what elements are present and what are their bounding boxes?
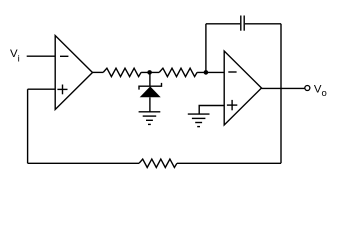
U2 minus sign <box>228 71 236 73</box>
wire cap loop left vertical <box>205 24 207 73</box>
ground (below D1) <box>139 112 161 125</box>
wire U1 noninverting input <box>28 88 56 90</box>
resistor R1 <box>103 68 141 76</box>
wire Vi to U1 inverting input <box>27 55 56 57</box>
resistor R3 (bottom feedback) <box>139 159 177 167</box>
ground (U2 noninverting input) <box>188 114 210 127</box>
U1 minus sign <box>60 55 68 57</box>
wire right vertical (output down to bottom feedback) <box>280 24 282 164</box>
node B junction dot <box>204 70 209 75</box>
wire U2 output <box>262 87 305 89</box>
output terminal circle <box>305 86 310 91</box>
wire bottom feedback right <box>177 162 281 164</box>
capacitor C1 <box>241 16 244 31</box>
U2 plus sign <box>227 100 237 110</box>
label Vi <box>10 48 20 64</box>
resistor R2 <box>159 68 197 76</box>
label Vo <box>314 83 327 99</box>
U1 plus sign <box>57 85 67 95</box>
wire cap loop top right <box>245 23 281 25</box>
wire U1 output <box>93 71 104 73</box>
op-amp U2 <box>224 51 261 125</box>
wire cap loop top left <box>206 23 240 25</box>
node A junction dot <box>147 70 152 75</box>
wire R2 to U2 inverting input <box>197 71 224 73</box>
wire left vertical (feedback to U1 +) <box>27 89 29 163</box>
wire U2 noninverting input <box>199 106 224 115</box>
wire bottom feedback left <box>28 162 139 164</box>
op-amp U1 <box>55 36 92 110</box>
zener diode D1 <box>139 72 162 111</box>
wire R1 to R2 <box>141 71 159 73</box>
